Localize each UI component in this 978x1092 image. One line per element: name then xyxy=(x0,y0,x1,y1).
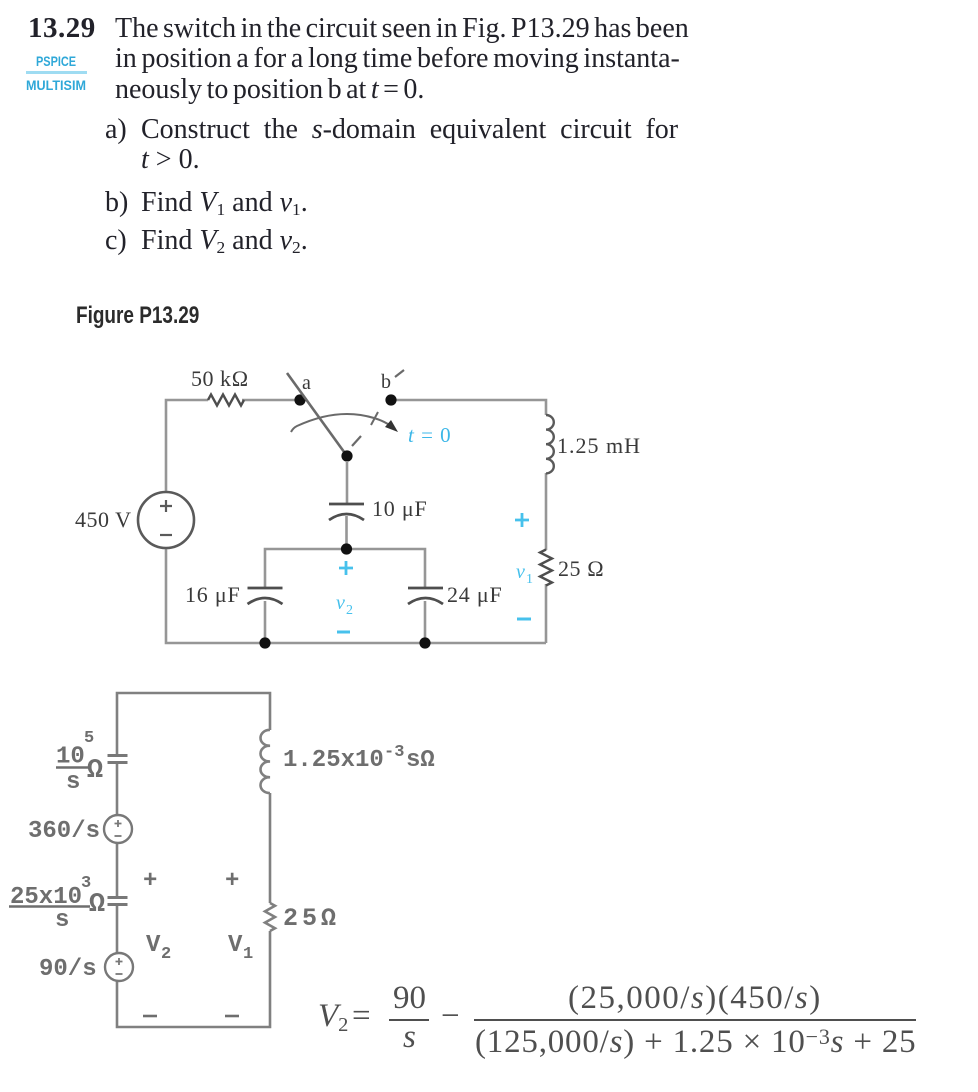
svg-text:-3: -3 xyxy=(384,743,404,762)
svg-text:sΩ: sΩ xyxy=(406,747,435,774)
svg-text:90/s: 90/s xyxy=(39,956,97,983)
junction node bottom right xyxy=(419,637,430,648)
svg-text:v: v xyxy=(516,561,525,583)
svg-text:2: 2 xyxy=(161,945,171,964)
capacitor 10^5/s xyxy=(108,756,128,763)
svg-text:1.25x10: 1.25x10 xyxy=(283,747,384,774)
junction node bottom left xyxy=(259,637,270,648)
capacitor 16 uF xyxy=(248,588,283,604)
equation V2 = 90/s - ... xyxy=(318,998,348,1035)
svg-text:10 μF: 10 μF xyxy=(372,496,428,521)
inductor 1.25x10^-3 s xyxy=(261,730,270,793)
V1 labels xyxy=(225,868,253,1016)
wire: cap to inner junction xyxy=(345,516,348,549)
svg-text:1: 1 xyxy=(243,945,253,964)
svg-text:t = 0: t = 0 xyxy=(408,423,452,447)
node b xyxy=(385,394,396,405)
item b xyxy=(105,187,128,219)
resistor 25 Ohm xyxy=(540,550,552,586)
svg-text:a: a xyxy=(302,372,311,394)
svg-text:360/s: 360/s xyxy=(28,818,100,845)
PSPICE tag xyxy=(36,53,76,69)
source 90/s xyxy=(105,953,133,981)
v1 labels xyxy=(515,513,533,619)
svg-text:s: s xyxy=(66,769,80,796)
capacitor 25x10^3/s xyxy=(108,898,128,905)
capacitor 24 uF xyxy=(408,588,443,604)
svg-text:s: s xyxy=(55,907,69,934)
svg-text:1: 1 xyxy=(526,572,533,587)
label 10^5/s Ohm xyxy=(56,729,103,796)
svg-text:16 μF: 16 μF xyxy=(185,582,241,607)
v2 labels xyxy=(336,561,353,632)
inductor 1.25 mH xyxy=(546,415,554,473)
switch pivot node xyxy=(341,450,352,461)
svg-text:b: b xyxy=(381,371,391,393)
svg-text:v: v xyxy=(336,592,345,614)
switch blade a to pivot xyxy=(287,373,347,456)
PSPICE underline xyxy=(26,71,87,74)
paragraph line 1 xyxy=(115,13,689,45)
figure caption xyxy=(76,302,199,330)
junction node top xyxy=(341,543,352,554)
svg-text:24 μF: 24 μF xyxy=(447,582,503,607)
node a xyxy=(294,394,305,405)
big fraction xyxy=(568,980,822,1017)
problem number xyxy=(28,12,96,45)
svg-text:+: + xyxy=(143,868,157,895)
paragraph line 3 xyxy=(115,74,424,106)
switch arc with arrow t=0 xyxy=(291,412,393,432)
svg-text:25 Ω: 25 Ω xyxy=(558,556,604,581)
wire: outer loop left/top/bottom/right xyxy=(166,400,546,643)
svg-text:Ω: Ω xyxy=(87,756,103,786)
label 25x10^3/s Ohm xyxy=(9,874,105,934)
capacitor 10 uF xyxy=(329,504,364,520)
wire: rect loop xyxy=(117,693,270,1027)
inner box wires xyxy=(265,549,425,643)
svg-text:450 V: 450 V xyxy=(75,507,132,532)
source V 450 xyxy=(138,492,194,548)
V2 labels xyxy=(143,868,171,1016)
svg-text:1.25 mH: 1.25 mH xyxy=(557,433,641,458)
svg-text:50 kΩ: 50 kΩ xyxy=(191,366,249,391)
svg-text:V: V xyxy=(146,932,161,959)
svg-text:V: V xyxy=(228,932,243,959)
item c xyxy=(105,225,127,257)
resistor 50 kOhm xyxy=(208,395,244,406)
paragraph line 2 xyxy=(115,43,680,75)
source 360/s xyxy=(104,815,132,843)
svg-text:25Ω: 25Ω xyxy=(283,904,340,933)
switch phantom dashes toward b xyxy=(352,370,404,446)
svg-text:2: 2 xyxy=(346,603,353,618)
svg-text:+: + xyxy=(225,868,239,895)
MULTISIM tag xyxy=(26,77,86,93)
wire: pivot to cap xyxy=(346,461,349,504)
svg-text:5: 5 xyxy=(84,729,94,748)
small fraction 90/s xyxy=(393,980,426,1017)
item a xyxy=(105,114,127,146)
svg-text:Ω: Ω xyxy=(89,890,105,920)
resistor 25 Ohm (s-domain) xyxy=(265,903,275,931)
